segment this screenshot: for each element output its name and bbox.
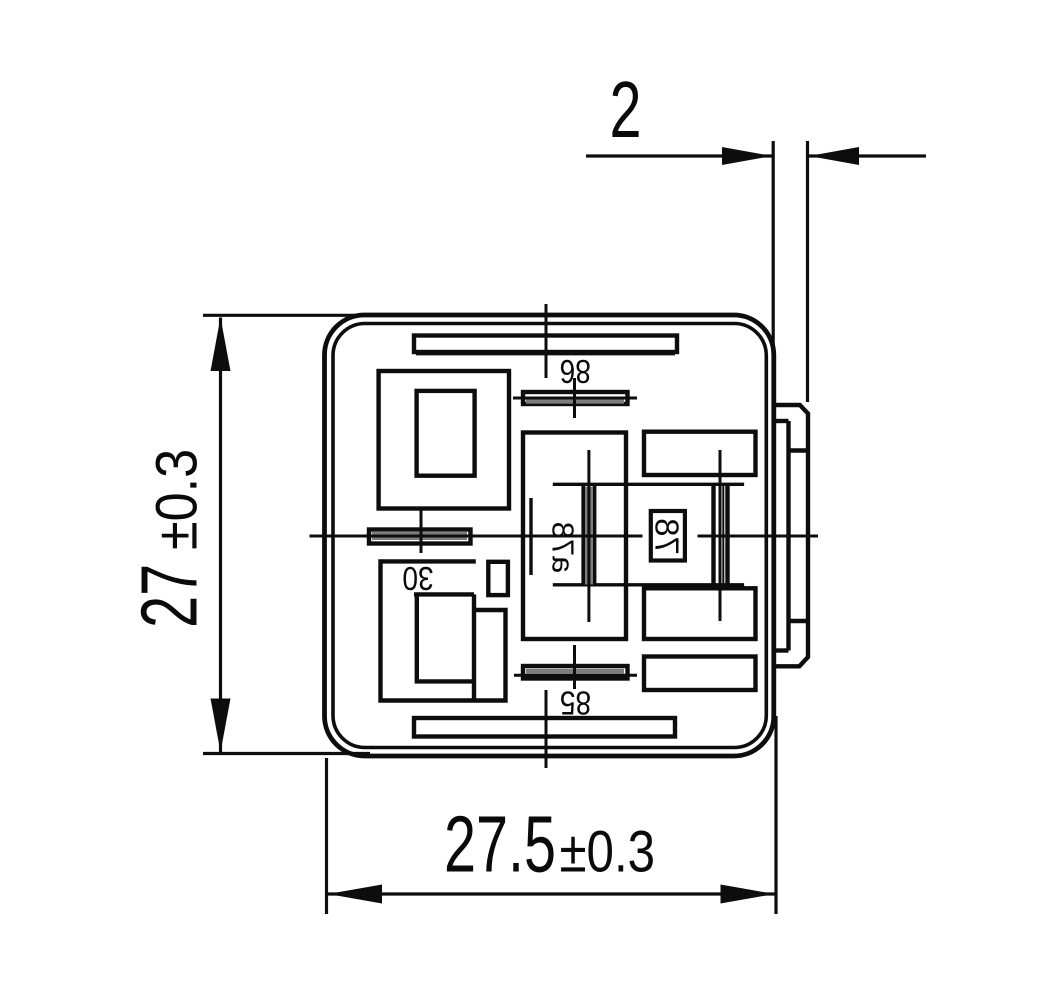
87a blade center mark — [587, 450, 590, 622]
lower bridge line — [553, 583, 744, 586]
bottom keying rib — [414, 718, 675, 737]
vertical centerline bottom — [545, 690, 548, 768]
svg-text:78: 78 — [649, 518, 686, 555]
horizontal centerline left part — [310, 535, 643, 538]
dimension 27.5 plus-minus 0.3 (bottom) — [327, 716, 777, 914]
bottom dim extension line left — [325, 758, 328, 914]
top dim line left — [586, 154, 772, 157]
86 slot blade fill — [526, 400, 624, 404]
terminal 87 label box — [651, 511, 685, 561]
coil square inner window — [417, 391, 475, 476]
mounting tab step upper — [789, 448, 809, 452]
top keying rib — [414, 336, 677, 353]
left slot (coil blade) — [369, 530, 471, 544]
left dim arrow top — [211, 318, 231, 372]
terminal 30 inner window — [417, 594, 474, 681]
top keying rib bottom thick line — [416, 353, 675, 355]
mounting tab step lower — [789, 619, 809, 623]
87a blade right edge — [593, 486, 597, 585]
85 slot center mark vertical — [573, 645, 576, 689]
85 slot blade fill — [526, 669, 624, 674]
svg-text:±0.3: ±0.3 — [144, 449, 209, 550]
svg-text:30: 30 — [402, 560, 433, 597]
svg-text:27.5: 27.5 — [444, 799, 556, 889]
terminal 87a box — [523, 433, 626, 640]
bottom right rectangle — [644, 657, 756, 691]
mounting tab inner bottom — [774, 648, 789, 652]
top dim line right — [809, 154, 926, 157]
lower right rectangle — [644, 588, 756, 639]
vertical centerline top — [545, 304, 548, 378]
small rectangle right of 30 — [488, 562, 508, 595]
terminal 30 cavity outline — [381, 561, 506, 700]
left dim line — [219, 318, 222, 753]
svg-text:85: 85 — [560, 684, 591, 721]
horizontal centerline right part — [698, 535, 819, 538]
svg-text:a78: a78 — [546, 522, 581, 574]
mounting tab outline — [774, 405, 808, 666]
mounting tab inner vertical — [786, 421, 790, 651]
86 slot center mark horizontal — [513, 397, 637, 400]
svg-text:±0.3: ±0.3 — [560, 820, 656, 885]
bottom dim line — [328, 892, 775, 895]
dimension 2 (top right) — [586, 141, 926, 402]
87a blade fill — [585, 487, 593, 585]
left dim arrow bottom — [211, 699, 231, 753]
87a box inner left line — [529, 498, 532, 575]
85 slot center mark horizontal — [514, 674, 637, 677]
svg-text:27: 27 — [124, 564, 214, 628]
relay body inner outline — [333, 324, 766, 748]
bottom dim arrow left — [328, 885, 382, 904]
coil square (terminal 86 cavity) — [379, 371, 509, 509]
87a blade left edge — [581, 486, 585, 585]
left slot blade fill — [372, 532, 467, 540]
mounting tab inner top — [774, 419, 789, 423]
left slot center mark vertical — [420, 508, 423, 553]
svg-text:86: 86 — [560, 352, 591, 389]
87 blade left edge — [711, 486, 715, 585]
left dim extension line bottom — [203, 752, 370, 755]
upper right rectangle — [644, 432, 756, 475]
terminal 85 slot — [523, 666, 628, 679]
bottom dim arrow right — [721, 885, 775, 904]
terminal 30 cavity inner top — [414, 592, 474, 596]
terminal 86 slot — [523, 392, 628, 404]
svg-text:2: 2 — [610, 65, 642, 155]
87 blade inner thin line — [722, 486, 724, 585]
dimension 27 plus-minus 0.3 (left) — [203, 315, 370, 753]
relay body outer outline — [325, 315, 774, 756]
bottom dim extension line right — [774, 716, 777, 914]
top dim extension line right — [806, 141, 809, 402]
left dim extension line top — [203, 314, 370, 317]
87 blade right edge — [725, 486, 729, 585]
86 slot center mark vertical — [573, 378, 576, 418]
87 blade center mark — [719, 450, 722, 621]
top dim extension line left — [772, 141, 775, 357]
top dim arrow left — [722, 147, 772, 165]
terminal 30 cavity mid vertical — [472, 594, 476, 700]
top dim arrow right — [809, 147, 859, 165]
upper bridge line — [553, 483, 744, 486]
